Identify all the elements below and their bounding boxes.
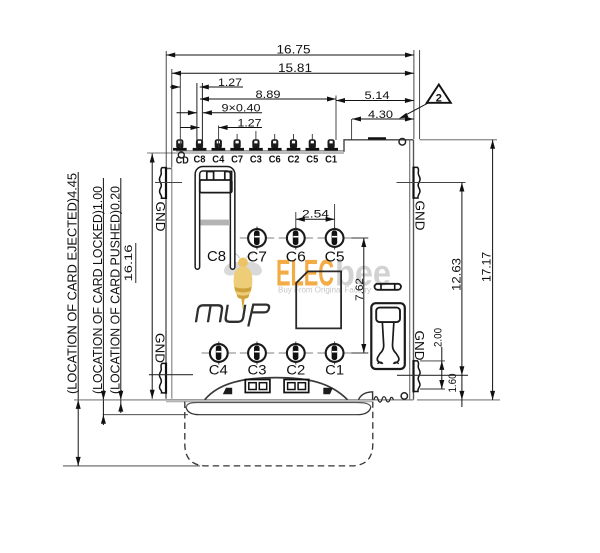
MUP logo [195, 305, 269, 327]
dim 4.45 card ejected [66, 172, 81, 466]
svg-text:C7: C7 [231, 155, 243, 166]
contact C2 [279, 342, 313, 365]
card ejected outline [185, 402, 373, 466]
pin CD [173, 139, 187, 150]
ext line right inner [413, 50, 415, 139]
centerline right top [397, 182, 466, 184]
ext line left outer [165, 51, 167, 168]
centerline left top [155, 182, 182, 184]
top-right dark segment [368, 137, 386, 139]
pin C7 [230, 139, 244, 150]
GND tab right bottom [413, 361, 420, 392]
card pushed position line [187, 403, 371, 407]
svg-text:15.81: 15.81 [278, 61, 312, 75]
svg-text:2.54: 2.54 [302, 209, 329, 221]
svg-text:5.14: 5.14 [365, 90, 390, 102]
ear under pin CD [178, 152, 184, 158]
ext line left inner [171, 69, 173, 168]
dim 12.63 [449, 183, 464, 376]
svg-text:(LOCATION OF CARD LOCKED)1.00: (LOCATION OF CARD LOCKED)1.00 [91, 186, 105, 394]
svg-text:C6: C6 [269, 155, 281, 166]
locked extension line [103, 414, 188, 416]
svg-text:GND: GND [153, 333, 168, 363]
svg-text:C3: C3 [250, 155, 262, 166]
ext lines pin C8 width [196, 83, 198, 149]
svg-text:7.62: 7.62 [354, 278, 366, 301]
contact C7 [240, 227, 274, 250]
ext line pin CD [179, 74, 181, 149]
dim 1.27 CD-C8 [170, 77, 243, 90]
svg-text:C3: C3 [248, 363, 267, 378]
WATERMARK [222, 253, 391, 311]
svg-text:C8: C8 [207, 249, 226, 265]
pin label row [176, 155, 338, 167]
GND tab left top [159, 168, 166, 199]
bottom mouth dome [205, 378, 348, 400]
GNDTABS [149, 167, 468, 403]
ear bottom-right [401, 393, 407, 399]
svg-text:8.89: 8.89 [256, 89, 281, 101]
PINS [173, 139, 407, 400]
body top-right step [344, 140, 414, 152]
svg-text:1.60: 1.60 [447, 374, 459, 393]
centerline left bottom [149, 374, 193, 376]
svg-text:C1: C1 [325, 363, 344, 378]
pin C1 [324, 139, 338, 150]
dim 0.20 card pushed [108, 178, 123, 413]
contact C4 [202, 342, 236, 365]
svg-text:16.16: 16.16 [123, 245, 135, 282]
svg-text:GND: GND [412, 331, 427, 361]
body right edge inner wall [409, 140, 411, 400]
ext line pin C1 [335, 96, 337, 141]
bee icon [222, 254, 264, 311]
chamfered pad window [296, 271, 341, 328]
ext line bottom edge right [417, 399, 500, 401]
pin C4 [212, 139, 226, 150]
svg-text:16.75: 16.75 [277, 43, 311, 57]
body left edge inner wall [171, 169, 173, 399]
svg-text:17.17: 17.17 [480, 252, 494, 282]
svg-text:12.63: 12.63 [449, 258, 463, 291]
card locked position line [186, 407, 371, 415]
svg-text:C6: C6 [286, 250, 306, 266]
dim 2.00 [420, 328, 445, 389]
solder tail small right [323, 388, 333, 394]
svg-text:C4: C4 [209, 363, 229, 378]
svg-text:C8: C8 [194, 155, 206, 166]
body bottom edge [166, 399, 414, 401]
svg-text:2.00: 2.00 [433, 328, 445, 347]
dim 8.89 [200, 89, 336, 102]
ext line pin C4 [218, 126, 220, 149]
dim 2.54 [296, 204, 335, 229]
CARD [63, 402, 373, 466]
svg-text:C1: C1 [325, 155, 337, 166]
svg-text:9×0.40: 9×0.40 [222, 103, 261, 115]
dim 7.62 [352, 238, 369, 353]
dim 1.60 [447, 374, 465, 408]
svg-text:(LOCATION OF CARD EJECTED)4.45: (LOCATION OF CARD EJECTED)4.45 [66, 173, 80, 394]
pin C8 [193, 139, 207, 150]
dim 1.27 C8-C4 [180, 117, 262, 130]
switch notch left [207, 172, 214, 181]
solder tail pad A [245, 380, 270, 393]
body left edge outer wall [166, 169, 172, 399]
ext line right outer [419, 50, 421, 139]
dim 15.81 [172, 61, 414, 76]
solder tail small left [223, 388, 232, 394]
pin C2 [287, 139, 301, 150]
dim 5.14 [336, 90, 414, 103]
mouth right corner [359, 392, 373, 400]
ext line top edge right [420, 139, 497, 141]
centerline right bottom [397, 374, 468, 376]
svg-text:(LOCATION OF CARD PUSHED)0.20: (LOCATION OF CARD PUSHED)0.20 [108, 186, 122, 394]
DIMS [66, 43, 501, 466]
body right edge outer wall [413, 140, 415, 400]
pin C5 [306, 139, 320, 150]
revision triangle 2 [399, 85, 451, 119]
svg-text:4.30: 4.30 [368, 109, 393, 121]
svg-text:C5: C5 [306, 155, 318, 166]
card lock latch [371, 303, 405, 369]
polarization capsule [375, 284, 402, 290]
dim 17.17 [480, 140, 496, 400]
pin C3 [249, 139, 263, 150]
svg-text:C4: C4 [212, 155, 224, 166]
card-detect switch C8 frame [197, 169, 232, 267]
svg-text:1.27: 1.27 [238, 117, 262, 129]
switch notch right [225, 172, 232, 181]
pin lead stubs [236, 134, 238, 140]
svg-text:GND: GND [153, 202, 168, 232]
dim 16.16 [123, 154, 155, 399]
INTERIOR [195, 169, 405, 400]
ext line bottom edge left [74, 399, 166, 401]
GND tab right top [413, 167, 420, 198]
svg-text:C7: C7 [247, 250, 267, 266]
contact C5 [317, 227, 351, 250]
dim 9x0.40 [177, 103, 263, 116]
GND tab left bottom [159, 363, 166, 393]
solder tail pad B [284, 380, 309, 393]
dim 4.30 [352, 109, 414, 140]
contact C1 [317, 342, 351, 365]
switch gray crossbar [201, 220, 231, 226]
svg-text:2: 2 [436, 93, 442, 105]
bottom edge squiggle right [374, 397, 393, 403]
svg-text:C5: C5 [325, 250, 345, 266]
svg-text:1.27: 1.27 [218, 77, 242, 89]
contact C6 [279, 227, 313, 250]
pin C6 [268, 139, 282, 150]
body top edge [176, 150, 344, 152]
svg-text:C2: C2 [286, 363, 305, 378]
ear top-right [399, 139, 406, 146]
dim 16.75 [166, 43, 414, 58]
svg-text:GND: GND [413, 201, 428, 231]
ejected extension line [63, 465, 200, 467]
contact C3 [240, 342, 274, 365]
dim 1.00 card locked [91, 178, 106, 425]
BODY [147, 138, 414, 401]
switch inner plate [200, 180, 232, 193]
svg-text:C2: C2 [288, 155, 300, 166]
